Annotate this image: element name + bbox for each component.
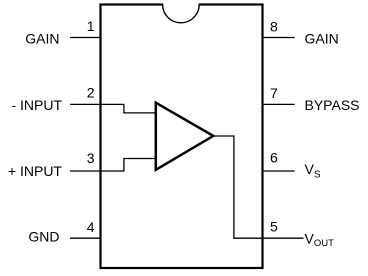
svg-text:7: 7	[270, 85, 278, 101]
svg-text:BYPASS: BYPASS	[305, 97, 360, 113]
svg-text:1: 1	[87, 18, 95, 34]
svg-text:2: 2	[87, 85, 95, 101]
svg-text:3: 3	[87, 150, 95, 166]
svg-text:+ INPUT: + INPUT	[8, 163, 63, 179]
svg-text:5: 5	[270, 219, 278, 235]
svg-text:GAIN: GAIN	[25, 30, 59, 46]
svg-text:6: 6	[270, 150, 278, 166]
svg-text:VOUT: VOUT	[305, 231, 335, 250]
svg-text:GAIN: GAIN	[305, 30, 339, 46]
svg-text:8: 8	[270, 19, 278, 35]
svg-text:GND: GND	[28, 228, 59, 244]
svg-text:- INPUT: - INPUT	[11, 97, 62, 113]
svg-text:4: 4	[87, 219, 95, 235]
svg-text:VS: VS	[305, 161, 321, 181]
